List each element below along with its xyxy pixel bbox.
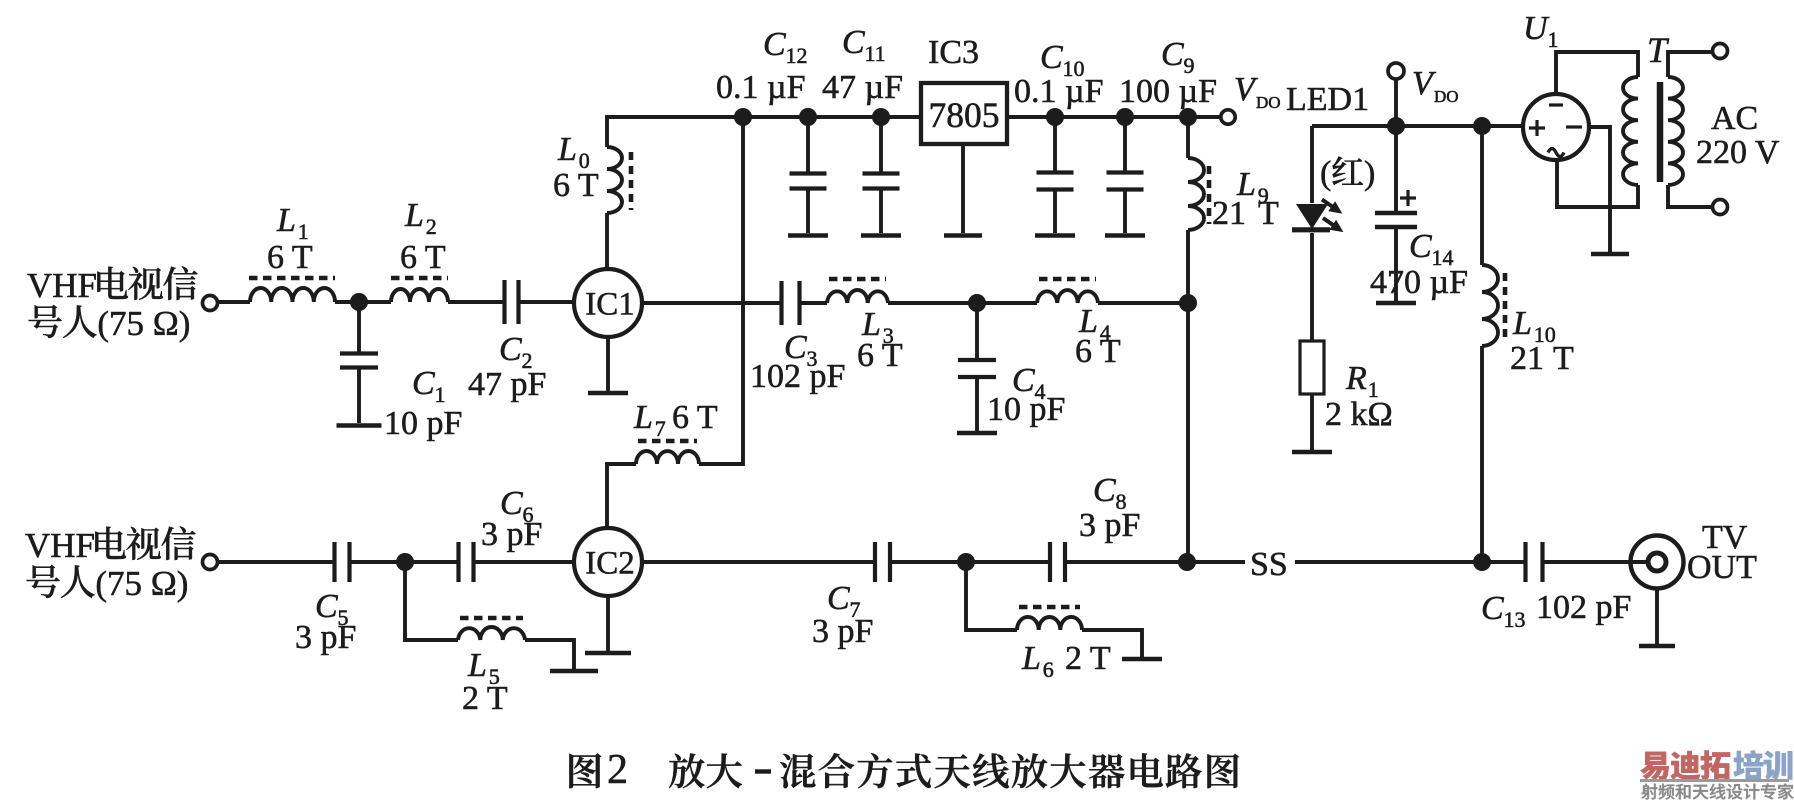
svg-text:21: 21	[1510, 340, 1544, 377]
svg-text:1: 1	[434, 382, 445, 407]
svg-text:6 T: 6 T	[1075, 333, 1121, 370]
svg-text:IC1: IC1	[585, 287, 635, 323]
svg-text:DO: DO	[1256, 93, 1281, 112]
svg-text:6 T: 6 T	[857, 337, 903, 374]
svg-text:C: C	[1161, 36, 1184, 73]
svg-text:AC: AC	[1711, 100, 1758, 137]
svg-text:6 T: 6 T	[267, 239, 313, 276]
svg-text:3 pF: 3 pF	[812, 613, 873, 650]
svg-text:VHF: VHF	[27, 266, 97, 305]
svg-text:220 V: 220 V	[1696, 134, 1780, 171]
svg-text:470 µF: 470 µF	[1370, 264, 1468, 301]
svg-text:2: 2	[607, 747, 628, 793]
svg-text:11: 11	[864, 41, 885, 66]
svg-text:C: C	[1409, 228, 1432, 265]
svg-text:2 T: 2 T	[462, 680, 508, 717]
svg-text:12: 12	[785, 43, 807, 68]
svg-text:7805: 7805	[929, 95, 1000, 135]
svg-text:IC2: IC2	[585, 546, 635, 582]
svg-text:IC3: IC3	[928, 34, 979, 71]
svg-text:C: C	[827, 580, 850, 617]
svg-text:U: U	[1523, 10, 1550, 47]
svg-text:2: 2	[426, 214, 437, 239]
svg-text:102 pF: 102 pF	[750, 358, 845, 395]
svg-text:L: L	[276, 202, 296, 239]
svg-text:L: L	[467, 647, 487, 684]
svg-text:): )	[1364, 155, 1375, 192]
svg-text:13: 13	[1503, 607, 1525, 632]
svg-text:C: C	[412, 365, 435, 402]
svg-text:C: C	[842, 24, 865, 61]
svg-text:10 pF: 10 pF	[987, 391, 1065, 428]
svg-text:3 pF: 3 pF	[295, 619, 356, 656]
svg-text:C: C	[499, 331, 522, 368]
svg-text:SS: SS	[1250, 546, 1288, 583]
svg-text:OUT: OUT	[1687, 549, 1757, 586]
svg-text:0.1 µF: 0.1 µF	[716, 69, 806, 106]
svg-text:C: C	[1481, 590, 1504, 627]
svg-text:LED1: LED1	[1286, 81, 1369, 118]
svg-text:L: L	[1021, 640, 1041, 677]
svg-text:DO: DO	[1434, 87, 1459, 106]
svg-text:6 T: 6 T	[553, 167, 599, 204]
svg-text:100 µF: 100 µF	[1119, 73, 1217, 110]
svg-text:6 T: 6 T	[672, 399, 718, 436]
svg-text:(75 Ω): (75 Ω)	[95, 564, 188, 603]
svg-text:10 pF: 10 pF	[384, 405, 462, 442]
svg-text:6 T: 6 T	[400, 239, 446, 276]
svg-text:VHF: VHF	[25, 526, 95, 565]
svg-text:47 µF: 47 µF	[822, 69, 903, 106]
svg-text:47 pF: 47 pF	[468, 366, 546, 403]
svg-text:C: C	[763, 26, 786, 63]
svg-text:C: C	[1040, 39, 1063, 76]
svg-text:L: L	[633, 399, 653, 436]
svg-text:7: 7	[655, 416, 666, 441]
svg-text:C: C	[1093, 472, 1116, 509]
svg-text:(75 Ω): (75 Ω)	[97, 304, 190, 343]
svg-text:T: T	[1553, 340, 1574, 377]
svg-text:102 pF: 102 pF	[1536, 589, 1631, 626]
svg-text:R: R	[1345, 360, 1367, 397]
svg-text:1: 1	[1547, 27, 1558, 52]
svg-text:L: L	[404, 197, 424, 234]
svg-text:2 kΩ: 2 kΩ	[1325, 396, 1393, 433]
svg-text:0.1 µF: 0.1 µF	[1014, 73, 1104, 110]
svg-text:2 T: 2 T	[1065, 640, 1111, 677]
svg-text:21: 21	[1212, 195, 1246, 232]
svg-text:T: T	[1647, 30, 1670, 70]
svg-text:L: L	[1512, 305, 1532, 342]
svg-text:3 pF: 3 pF	[481, 516, 542, 553]
svg-text:L: L	[557, 131, 577, 168]
svg-text:T: T	[1258, 195, 1279, 232]
svg-text:6: 6	[1043, 657, 1054, 682]
svg-text:(: (	[1320, 155, 1331, 192]
svg-text:3 pF: 3 pF	[1079, 507, 1140, 544]
